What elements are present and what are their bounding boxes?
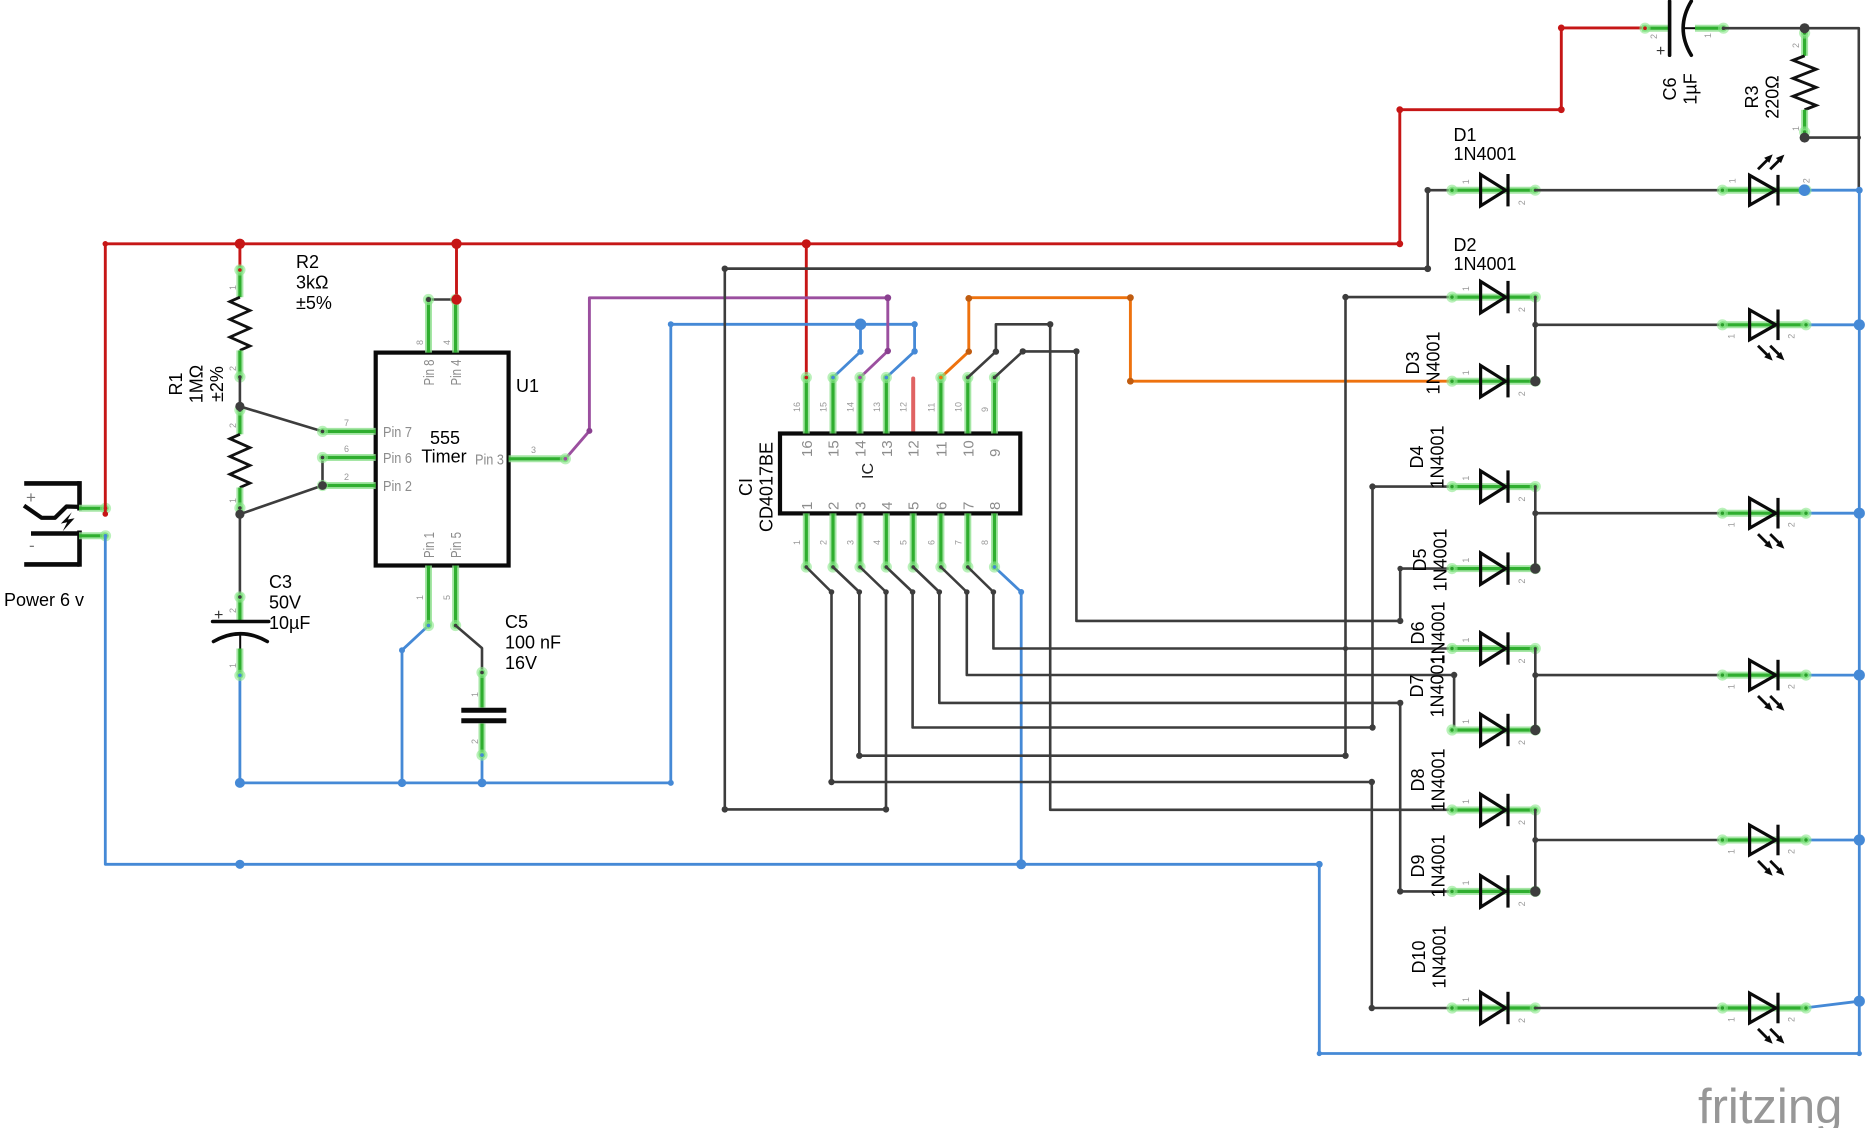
power lead plus — [79, 503, 111, 514]
CD4017 pin12 unconnected stub — [911, 379, 915, 434]
resistor R3 220 — [1791, 27, 1816, 137]
wire dark R3 bottom to right edge — [1805, 136, 1859, 139]
svg-text:+: + — [26, 488, 36, 507]
svg-text:Pin 8: Pin 8 — [421, 360, 438, 386]
svg-text:D7: D7 — [1407, 674, 1427, 697]
svg-text:3: 3 — [846, 540, 856, 545]
wire 6V+ red rail from power to C6 — [105, 28, 1642, 512]
svg-text:Pin 6: Pin 6 — [383, 450, 412, 467]
LED3 — [1717, 498, 1812, 549]
wire dark R1 to C3 — [239, 514, 242, 593]
IC CI CD4017BE body — [780, 434, 1020, 514]
svg-text:1: 1 — [792, 540, 802, 545]
svg-text:CD4017BE: CD4017BE — [757, 442, 777, 532]
junction dots blue net — [235, 184, 1865, 1056]
svg-text:D1: D1 — [1454, 125, 1477, 145]
CD4017 pin 5 lead — [899, 513, 919, 572]
label D4 1N4001 rotated — [1407, 425, 1448, 488]
svg-text:Pin 5: Pin 5 — [448, 532, 465, 558]
LED6 — [1717, 993, 1812, 1044]
svg-text:15: 15 — [826, 440, 843, 457]
svg-text:3kΩ: 3kΩ — [296, 273, 328, 293]
svg-text:14: 14 — [853, 440, 870, 457]
555 pin 4 lead — [442, 294, 461, 353]
diode D10 1N4001 — [1446, 992, 1541, 1024]
diode D3 1N4001 — [1446, 365, 1541, 397]
wire blue CD4017 pin8 ground drop — [995, 567, 1022, 864]
svg-text:1N4001: 1N4001 — [1430, 925, 1450, 988]
svg-text:2: 2 — [228, 608, 238, 613]
svg-text:4: 4 — [879, 502, 896, 510]
wire dark C6 to right edge and down to LED1 — [1724, 28, 1859, 190]
svg-text:16: 16 — [792, 402, 802, 412]
wire blue row to pin13 — [671, 323, 915, 326]
svg-text:1: 1 — [415, 595, 425, 600]
wire dark 555 pin5 to C5 — [456, 626, 482, 673]
svg-text:D3: D3 — [1403, 351, 1423, 374]
svg-text:2: 2 — [228, 366, 238, 371]
svg-text:5: 5 — [442, 595, 452, 600]
wire ground blue 555 row — [240, 324, 671, 783]
CD4017 pin 1 lead — [792, 513, 812, 572]
svg-text:R1: R1 — [166, 372, 186, 395]
CD4017 pin 11 lead — [926, 372, 946, 434]
svg-text:3: 3 — [531, 445, 536, 455]
wire blue CD4017 pin15 tap — [833, 324, 861, 377]
wire pin6 to D7 — [941, 567, 1454, 730]
LED4 — [1717, 660, 1812, 711]
wire blue LED6 to ground bus — [1804, 1001, 1859, 1008]
label D6 1N4001 rotated — [1408, 601, 1449, 664]
wire dark D8 D9 cathodes to LED5 — [1535, 810, 1722, 891]
svg-text:555: 555 — [430, 428, 460, 448]
svg-text:D6: D6 — [1408, 621, 1428, 644]
wire red riser to 555 pin4 — [455, 244, 458, 300]
junction dots purple net — [586, 294, 891, 434]
CD4017 pin 3 lead — [846, 513, 866, 572]
svg-text:Timer: Timer — [421, 447, 466, 467]
svg-text:9: 9 — [987, 449, 1004, 457]
svg-text:±2%: ±2% — [207, 366, 227, 402]
svg-text:2: 2 — [470, 739, 480, 744]
svg-text:D2: D2 — [1454, 235, 1477, 255]
svg-text:Pin 4: Pin 4 — [448, 360, 465, 386]
svg-text:1: 1 — [470, 692, 480, 697]
svg-text:220Ω: 220Ω — [1763, 75, 1783, 119]
power lead minus — [79, 530, 111, 541]
wire pin1 to D10 — [806, 567, 1452, 1008]
diode D5 1N4001 — [1446, 552, 1541, 584]
label CI CD4017BE rotated — [736, 442, 777, 532]
svg-text:1: 1 — [228, 285, 238, 290]
svg-text:+: + — [214, 607, 223, 624]
wire blue 555 pin1 drop — [402, 626, 429, 783]
555 pin 1 lead — [415, 566, 434, 632]
svg-text:+: + — [1656, 43, 1665, 60]
svg-text:D8: D8 — [1408, 768, 1428, 791]
svg-text:D4: D4 — [1407, 445, 1427, 468]
svg-text:50V: 50V — [269, 593, 301, 613]
diode D9 1N4001 — [1446, 875, 1541, 907]
svg-text:6: 6 — [933, 502, 950, 510]
svg-text:16: 16 — [799, 440, 816, 457]
CD4017 pin 13 lead — [872, 372, 892, 434]
svg-text:1N4001: 1N4001 — [1454, 254, 1517, 274]
555 internal pin labels — [383, 360, 504, 559]
wire dark D1 to LED1 — [1535, 189, 1722, 192]
svg-text:Pin 7: Pin 7 — [383, 424, 412, 441]
svg-text:R2: R2 — [296, 252, 319, 272]
svg-text:13: 13 — [879, 440, 896, 457]
svg-text:1N4001: 1N4001 — [1431, 528, 1451, 591]
svg-text:14: 14 — [846, 402, 856, 412]
LED1 — [1717, 154, 1812, 205]
diode D4 1N4001 — [1446, 470, 1541, 502]
555 pin 7 lead — [317, 418, 376, 437]
svg-text:12: 12 — [899, 402, 909, 412]
wire pin9 to D5 — [995, 351, 1453, 621]
svg-text:11: 11 — [926, 403, 936, 412]
svg-text:D5: D5 — [1410, 548, 1430, 571]
wire dark 555 pin6 to pin2 link and to R1C3 junction — [240, 458, 323, 515]
555 pin 3 lead — [509, 445, 571, 464]
diode D7 1N4001 — [1446, 714, 1541, 746]
wire pin7 to D6 — [968, 567, 1452, 649]
wire blue C5 drop — [481, 755, 484, 783]
label D9 1N4001 rotated — [1408, 834, 1449, 897]
svg-text:1: 1 — [799, 502, 816, 510]
555 pin 6 lead — [317, 444, 376, 463]
svg-text:4: 4 — [872, 540, 882, 545]
wire dark D6 D7 cathodes to LED4 — [1535, 649, 1722, 731]
svg-text:1N4001: 1N4001 — [1454, 144, 1517, 164]
svg-text:2: 2 — [819, 540, 829, 545]
CD4017 pin 7 lead — [953, 513, 973, 572]
wire red stub to R2 — [238, 244, 241, 266]
diode D8 1N4001 — [1446, 794, 1541, 826]
svg-text:15: 15 — [819, 402, 829, 412]
svg-text:11: 11 — [933, 441, 950, 457]
label C6 1uF rotated — [1660, 73, 1701, 104]
svg-text:IC: IC — [860, 463, 877, 479]
label D10 1N4001 rotated — [1409, 925, 1450, 988]
svg-text:1: 1 — [1791, 126, 1801, 131]
svg-text:100 nF: 100 nF — [505, 633, 561, 653]
svg-text:C5: C5 — [505, 612, 528, 632]
label D3 1N4001 rotated — [1403, 331, 1444, 394]
svg-text:1: 1 — [228, 498, 238, 503]
svg-text:2: 2 — [1791, 43, 1801, 48]
wire top rail overlay — [725, 267, 1428, 270]
svg-text:2: 2 — [228, 423, 238, 428]
svg-text:8: 8 — [415, 340, 425, 345]
LED2 — [1717, 310, 1812, 361]
svg-text:1: 1 — [228, 663, 238, 668]
svg-text:7: 7 — [344, 418, 349, 428]
wire red riser to CD4017 pin16 — [805, 244, 808, 378]
wire pin4 to D4 — [886, 487, 1452, 728]
svg-text:5: 5 — [906, 502, 923, 510]
svg-text:10: 10 — [953, 402, 963, 412]
svg-text:13: 13 — [872, 402, 882, 412]
junction dots orange net — [965, 294, 1133, 384]
wire pin10 to D8 — [968, 324, 1453, 810]
CD4017 pin 16 lead — [792, 372, 812, 434]
wire pin2 to D2 — [833, 297, 1452, 756]
capacitor C6 1uF polarized — [1639, 1, 1729, 60]
svg-text:Pin 2: Pin 2 — [383, 478, 412, 495]
label D5 1N4001 rotated — [1410, 528, 1451, 591]
svg-text:4: 4 — [442, 340, 452, 345]
wire ground blue main loop — [105, 190, 1859, 1053]
svg-text:7: 7 — [960, 502, 977, 510]
svg-text:6: 6 — [926, 540, 936, 545]
svg-text:Power 6 v: Power 6 v — [4, 590, 84, 610]
CD4017 pin 9 lead — [980, 372, 1000, 434]
svg-text:8: 8 — [980, 540, 990, 545]
wire purple 555 pin3 to CD4017 pin14 — [565, 298, 887, 459]
svg-text:9: 9 — [980, 407, 990, 412]
svg-text:10µF: 10µF — [269, 613, 310, 633]
wire orange CD4017 pin11 to D3 — [941, 298, 1452, 382]
CD4017 pin 10 lead — [953, 372, 973, 434]
svg-text:fritzing: fritzing — [1698, 1080, 1842, 1128]
wire dark 555 pin7 to R1R2 junction — [240, 406, 323, 431]
capacitor C5 100nF — [461, 667, 506, 761]
svg-text:±5%: ±5% — [296, 293, 332, 313]
junction dots red net — [103, 25, 1565, 517]
power supply J1 6V battery connector — [24, 481, 80, 567]
CD4017 pin 15 lead — [819, 372, 839, 434]
svg-text:2: 2 — [1649, 34, 1659, 39]
label R1 1MOhm rotated — [166, 365, 227, 403]
CD4017 pin 14 lead — [846, 372, 866, 434]
diode D1 1N4001 — [1446, 174, 1541, 206]
svg-text:Pin 1: Pin 1 — [421, 532, 438, 558]
wire-colored lead connection centers — [104, 26, 1726, 756]
svg-text:1N4001: 1N4001 — [1428, 425, 1448, 488]
svg-text:-: - — [29, 536, 35, 555]
label D8 1N4001 rotated — [1408, 748, 1449, 811]
svg-text:CI: CI — [736, 478, 756, 496]
resistor R1 1M — [228, 404, 250, 514]
CD4017 internal pin number labels — [799, 440, 1004, 510]
LED5 — [1717, 825, 1812, 876]
wire dark D10 to LED6 — [1535, 1007, 1720, 1010]
svg-text:1N4001: 1N4001 — [1428, 654, 1448, 717]
svg-text:U1: U1 — [516, 376, 539, 396]
label R3 220Ohm rotated — [1742, 75, 1783, 119]
svg-text:C3: C3 — [269, 572, 292, 592]
svg-text:C6: C6 — [1660, 77, 1680, 100]
wire dark jog 555 pin8 to pin4 — [429, 298, 457, 301]
555 pin 2 lead — [317, 472, 376, 491]
CD4017 pin 4 lead — [872, 513, 892, 572]
wire blue LED5 to ground bus — [1806, 839, 1859, 842]
wire blue LED1 to ground bus — [1801, 189, 1860, 192]
wire blue LED2 to ground bus — [1806, 323, 1859, 326]
CD4017 pin 2 lead — [819, 513, 839, 572]
wire blue LED4 to ground bus — [1806, 674, 1859, 677]
svg-text:5: 5 — [899, 540, 909, 545]
svg-text:3: 3 — [853, 502, 870, 510]
svg-text:8: 8 — [987, 502, 1004, 510]
wire blue LED3 to ground bus — [1806, 512, 1859, 515]
resistor R2 3k — [228, 264, 250, 382]
wire pin5 to D9 — [913, 567, 1452, 891]
diode D2 1N4001 — [1446, 281, 1541, 313]
capacitor C3 10uF polarized — [213, 591, 269, 681]
wire pin3 to D1 long loop — [725, 190, 1452, 809]
svg-text:1: 1 — [1703, 33, 1713, 38]
svg-text:Pin 3: Pin 3 — [475, 452, 504, 469]
svg-text:6: 6 — [344, 444, 349, 454]
junction dots dark net — [235, 23, 1861, 1011]
svg-text:D9: D9 — [1408, 854, 1428, 877]
svg-text:2: 2 — [826, 502, 843, 510]
555 pin 5 lead — [442, 566, 461, 632]
CD4017 pin 8 lead — [980, 513, 1000, 572]
svg-text:2: 2 — [344, 472, 349, 482]
svg-text:16V: 16V — [505, 653, 537, 673]
svg-text:7: 7 — [953, 540, 963, 545]
op-amp U1 555 timer body — [376, 353, 509, 566]
diode D6 1N4001 — [1446, 632, 1541, 664]
555 pin 8 lead — [415, 294, 434, 353]
label D7 1N4001 rotated — [1407, 654, 1448, 717]
svg-text:1N4001: 1N4001 — [1424, 331, 1444, 394]
svg-text:R3: R3 — [1742, 85, 1762, 108]
svg-text:1N4001: 1N4001 — [1429, 834, 1449, 897]
wire dark R2 to R1 — [239, 378, 242, 407]
svg-text:1µF: 1µF — [1681, 73, 1701, 104]
svg-text:1N4001: 1N4001 — [1429, 748, 1449, 811]
wire dark D2 D3 cathodes to LED2 — [1535, 297, 1722, 381]
svg-text:1MΩ: 1MΩ — [187, 365, 207, 403]
CD4017 pin 6 lead — [926, 513, 946, 572]
svg-text:D10: D10 — [1409, 940, 1429, 973]
svg-text:10: 10 — [960, 440, 977, 457]
svg-text:12: 12 — [906, 440, 923, 457]
wire dark D4 D5 cathodes to LED3 — [1535, 487, 1722, 569]
